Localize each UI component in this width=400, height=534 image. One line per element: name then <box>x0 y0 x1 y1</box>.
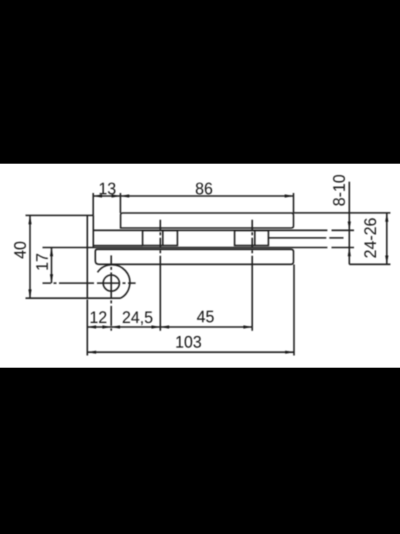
dim 40 line <box>29 215 31 298</box>
bottom dim row1 extension x=87.3 <box>86 300 88 356</box>
plate/foot bottom edge + 40 bottom extension line <box>26 297 121 299</box>
pivot horizontal centerline <box>43 282 136 284</box>
label 86 <box>196 183 212 195</box>
right spacer divider <box>254 231 256 246</box>
dim 103 right extension <box>293 265 295 356</box>
glass pane centerline <box>268 237 343 239</box>
dim 24-26 line <box>386 213 388 264</box>
label 40 <box>14 242 26 259</box>
dim line 13+86 <box>93 195 293 197</box>
arrow dim12 left <box>87 325 96 328</box>
pivot hole circle <box>103 275 119 291</box>
left screw extension line down to dims <box>159 264 161 331</box>
arrow dim24,5 left <box>111 325 120 328</box>
arrow dim103 right <box>285 351 294 354</box>
bottom dim row2 line (103) <box>87 351 294 353</box>
arrow dim86 left <box>120 194 129 197</box>
right screw centerline <box>251 220 253 264</box>
plate top edge + 40 top extension line <box>26 214 94 216</box>
dim 17 top extension <box>43 247 355 249</box>
white drawing band <box>0 164 400 368</box>
right spacer block <box>235 231 269 246</box>
knuckle boss arc <box>98 265 130 298</box>
arrow dim86 right <box>285 194 294 197</box>
label 24-26 <box>364 218 376 257</box>
left spacer divider <box>162 231 164 246</box>
bottom dim row1 line (12 / 24,5 / 45) <box>87 326 252 328</box>
arrow dim45 left <box>160 325 169 328</box>
label 45 <box>197 311 214 323</box>
left screw centerline <box>159 220 161 264</box>
pivot vertical centerline / extension to bottom dims <box>110 255 112 330</box>
dim 13/86 extension line middle (bar left edge) <box>119 193 121 213</box>
arrow dim103 left <box>87 351 96 354</box>
arrow dim17 top <box>50 248 53 257</box>
right screw extension line down to dims <box>251 264 253 331</box>
label 12 <box>91 311 107 323</box>
dim 24-26 top extension (continuation of bar top edge) <box>294 212 391 214</box>
arrow dim24-26 top <box>385 213 388 222</box>
arrow dim40 top <box>28 215 31 224</box>
arrow dim45 right <box>243 325 252 328</box>
bottom clamp bar <box>95 249 293 264</box>
label 8-10 <box>333 175 345 206</box>
arrow dim13 left <box>93 194 102 197</box>
arrow dim12 right <box>102 325 111 328</box>
dim 17 line <box>51 248 53 284</box>
arrow dim13 right <box>112 194 121 197</box>
dim 24-26 bottom extension <box>349 263 390 265</box>
arrow dim24,5 right <box>152 325 161 328</box>
label 17 <box>36 254 48 270</box>
glass slot top line <box>93 229 354 231</box>
arrow dim17 bottom <box>50 274 53 283</box>
left spacer block <box>143 231 178 246</box>
arrow dim8-10 lower (points up) <box>348 248 351 257</box>
dim 86 extension line right <box>293 193 295 213</box>
arrow dim8-10 upper (points down) <box>348 222 351 231</box>
dim 8-10 line <box>348 182 350 265</box>
arrow dim24-26 bottom <box>385 256 388 265</box>
label 13 <box>100 183 116 195</box>
arrow dim40 bottom <box>28 289 31 298</box>
label 24,5 <box>123 311 153 325</box>
wall mounting plate <box>87 215 93 298</box>
upper jaw bottom edge <box>93 245 142 247</box>
top clamp cover plate (86) <box>121 213 294 228</box>
dim 13/86 extension line left (plate) <box>92 193 94 215</box>
label 103 <box>176 336 201 348</box>
